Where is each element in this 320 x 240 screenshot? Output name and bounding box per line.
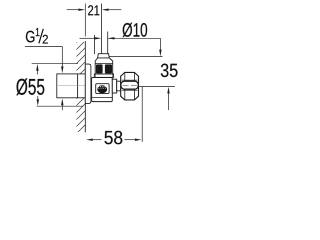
nut dark facets bbox=[96, 64, 103, 73]
Ø55 bottom ext bbox=[37, 105, 83, 107]
Ø55 down arrow bbox=[37, 96, 39, 100]
dim 21 line + arrows bbox=[67, 9, 79, 11]
Ø10 right ext line bbox=[107, 32, 109, 54]
ferrule bbox=[98, 54, 110, 58]
escutcheon Ø55 bbox=[85, 64, 91, 103]
label Ø10 bbox=[123, 23, 148, 37]
label 58 bbox=[105, 131, 123, 145]
wall hatch upper bbox=[77, 42, 86, 74]
G1/2 lower arrow bbox=[61, 98, 63, 105]
valve body bbox=[92, 78, 113, 102]
wall hatch lower bbox=[77, 98, 86, 132]
outlet neck bbox=[112, 79, 116, 93]
label G 1/2 bbox=[26, 31, 35, 43]
label 35 bbox=[161, 64, 178, 78]
nut waist lens bbox=[121, 81, 139, 89]
dim 35 vertical + top arrow bbox=[159, 38, 161, 50]
label 21 bbox=[88, 5, 99, 15]
riser pipe Ø10 bbox=[94, 35, 96, 54]
inlet centerline bbox=[58, 85, 85, 87]
outlet nut octagon bbox=[121, 72, 139, 100]
Ø55 up arrow bbox=[36, 64, 38, 71]
compression nut upper bbox=[95, 58, 113, 74]
Ø10 underline bbox=[108, 37, 161, 39]
35 bottom ext line bbox=[139, 86, 175, 88]
35 bottom arrow bbox=[167, 87, 169, 94]
nut facet lines bbox=[124, 72, 126, 81]
wall surface line bbox=[84, 41, 86, 132]
thread division line bbox=[77, 74, 79, 98]
handle window bbox=[96, 84, 109, 94]
label Ø55 bbox=[16, 78, 44, 95]
handle oval bbox=[97, 85, 107, 93]
dim Ø55 top ext bbox=[32, 63, 78, 65]
body bottom joint line bbox=[92, 96, 112, 98]
nut centerline bbox=[123, 84, 129, 86]
dim 21 ext line left bbox=[84, 4, 86, 37]
nut collar bbox=[94, 74, 113, 77]
58 dim line + arrows bbox=[86, 139, 93, 141]
inlet thread rect G1/2 bbox=[57, 74, 86, 98]
dim Ø10 arrows bbox=[80, 37, 96, 39]
35 top ext line bbox=[110, 56, 163, 58]
dim 58 right ext bbox=[141, 87, 143, 143]
G1/2 leader bbox=[25, 47, 62, 67]
